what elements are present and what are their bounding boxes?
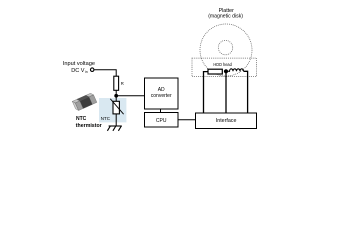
- svg-text:CPU: CPU: [156, 118, 167, 124]
- svg-text:Input voltage: Input voltage: [63, 61, 95, 67]
- ground: [107, 126, 121, 131]
- HDD head dashed box: [192, 58, 257, 76]
- svg-text:R: R: [121, 81, 124, 86]
- node junction: [114, 94, 118, 98]
- label: Input voltage DC Vin: [63, 61, 95, 74]
- NTC thermistor photo (3D chip): [72, 92, 97, 111]
- label: Platter (magnetic disk): [208, 8, 243, 19]
- head node: [224, 69, 228, 73]
- wire: node to NTC thermistor: [115, 96, 117, 102]
- svg-text:in: in: [85, 70, 88, 74]
- input terminal: [90, 68, 94, 72]
- svg-text:Interface: Interface: [216, 118, 237, 124]
- wire: terminal to resistor R: [95, 70, 117, 77]
- svg-text:HDD head: HDD head: [213, 62, 232, 67]
- wire: node to AD converter: [116, 95, 144, 97]
- wire: head node to Interface: [225, 73, 227, 113]
- svg-text:thermistor: thermistor: [76, 123, 103, 129]
- wire: head coil right to Interface: [244, 71, 248, 113]
- svg-text:(magnetic disk): (magnetic disk): [208, 13, 243, 19]
- label: HDD head: [212, 61, 235, 67]
- CPU box: [145, 113, 179, 128]
- NTC thermistor symbol: [110, 99, 123, 114]
- label: NTC thermistor: [76, 116, 103, 129]
- label: AD converter: [151, 87, 172, 99]
- AD converter box: [145, 78, 179, 109]
- head coil: [228, 69, 243, 72]
- svg-text:converter: converter: [151, 93, 172, 99]
- svg-text:NTC: NTC: [76, 116, 86, 122]
- Interface box: [196, 113, 257, 129]
- NTC highlight box: [99, 98, 126, 122]
- wire: resistor R to node: [115, 90, 117, 96]
- wire: AD converter to CPU: [160, 109, 162, 113]
- head resistor (MR element): [208, 69, 222, 74]
- resistor R: [114, 76, 119, 90]
- wire: CPU to Interface: [178, 119, 196, 121]
- wire: NTC thermistor to ground: [115, 114, 117, 126]
- spindle (inner dotted circle): [218, 40, 232, 54]
- svg-text:NTC: NTC: [101, 116, 111, 122]
- svg-text:DC V: DC V: [71, 68, 85, 74]
- wire: head resistor left to Interface: [204, 72, 209, 113]
- platter disk (dotted circle): [200, 24, 252, 76]
